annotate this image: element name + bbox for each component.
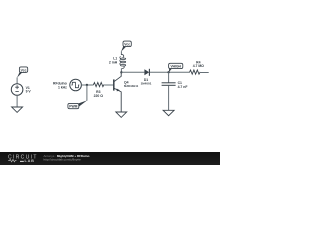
wire AC source to node: [81, 84, 93, 86]
resistor R3: [93, 83, 104, 87]
wire stub after R4: [200, 72, 208, 74]
footer logo CIRCUIT LAB: [0, 0, 220, 165]
node junction (collector): [120, 71, 122, 73]
wire C1 to ground: [168, 86, 170, 111]
wire L1 to collector node: [120, 69, 122, 73]
node junction (VHIGH): [167, 71, 169, 73]
voltage source V1: [11, 84, 23, 96]
net flag Vcc (top): [121, 41, 131, 52]
svg-text:http://circuitlab.com/c/8nyrte: http://circuitlab.com/c/8nyrte: [44, 158, 82, 162]
capacitor C1: [162, 83, 176, 86]
resistor R4: [189, 70, 200, 74]
wire node down to PWM flag: [86, 85, 88, 101]
node junction (PWM): [86, 84, 88, 86]
diode D1: [144, 69, 149, 76]
footer bar: [0, 152, 220, 165]
svg-text:▬LAB: ▬LAB: [20, 159, 35, 163]
base bar: [113, 79, 115, 90]
wire R3 to Q4 base: [104, 84, 113, 86]
wire Vcc to V1 top: [16, 77, 18, 83]
inductor L1: [120, 54, 126, 68]
wire V1 bottom to ground: [16, 95, 18, 107]
ground (under C1): [163, 110, 174, 115]
AC source (square wave): [70, 79, 82, 91]
wire D1 to VHIGH node: [150, 71, 190, 73]
collector lead: [114, 72, 121, 82]
wire Vcc flag to L1: [120, 51, 122, 55]
emitter lead with arrow: [114, 88, 121, 112]
net flag PWM: [68, 100, 87, 108]
ground (under Q4 emitter): [116, 112, 127, 117]
ground (under V1): [12, 107, 23, 112]
net flag VHIGH: [169, 63, 183, 72]
wire node to C1: [168, 72, 170, 82]
net flag Vcc (left): [17, 67, 28, 78]
wire collector node to D1: [121, 71, 144, 73]
